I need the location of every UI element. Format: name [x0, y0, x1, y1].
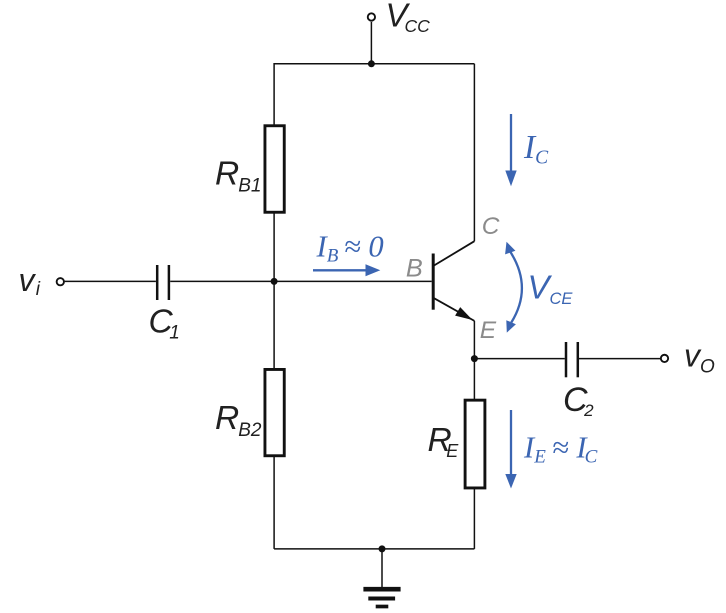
wire RE to bottom rail: [473, 489, 475, 549]
wire RB2 to bottom rail: [273, 457, 275, 549]
svg-text:IB ≈ 0: IB ≈ 0: [316, 230, 384, 267]
wire vi to C1: [65, 280, 156, 282]
node emitter junction: [471, 355, 478, 362]
junction top rail node: [368, 60, 375, 67]
wire top rail: [274, 63, 474, 65]
wire ground stem: [381, 549, 383, 588]
wire emitter: [473, 321, 475, 359]
svg-text:IE ≈ IC: IE ≈ IC: [523, 431, 598, 468]
resistor RE: [465, 400, 485, 488]
node base junction: [271, 278, 278, 285]
voltage arc VCE: [505, 242, 522, 333]
wire emitter node to C2: [474, 358, 564, 360]
terminal VCC: [368, 13, 375, 20]
terminal vO output: [661, 355, 668, 362]
wire C2 to output: [579, 358, 661, 360]
svg-text:B: B: [406, 254, 423, 282]
svg-text:E: E: [480, 317, 497, 344]
wire emitter node to RE: [473, 359, 475, 400]
wire collector: [473, 64, 475, 241]
capacitor C2: [566, 342, 578, 377]
wire RB1 to RB2 through base node: [273, 213, 275, 369]
current arrow IB: [313, 264, 380, 276]
capacitor C1: [157, 265, 169, 300]
junction ground node: [379, 545, 386, 552]
wire base node to transistor base: [274, 280, 432, 282]
resistor RB2: [265, 369, 284, 455]
wire VCC stem: [370, 22, 372, 64]
resistor RB1: [265, 126, 284, 213]
svg-text:C: C: [482, 213, 500, 240]
ground: [363, 589, 400, 606]
current arrow IE: [505, 410, 516, 489]
transistor Q1: [433, 241, 474, 321]
wire bottom rail: [274, 548, 474, 550]
wire C1 to base node: [170, 280, 274, 282]
terminal vi input: [57, 278, 64, 285]
wire top rail to RB1: [273, 63, 275, 125]
current arrow IC: [505, 114, 516, 186]
